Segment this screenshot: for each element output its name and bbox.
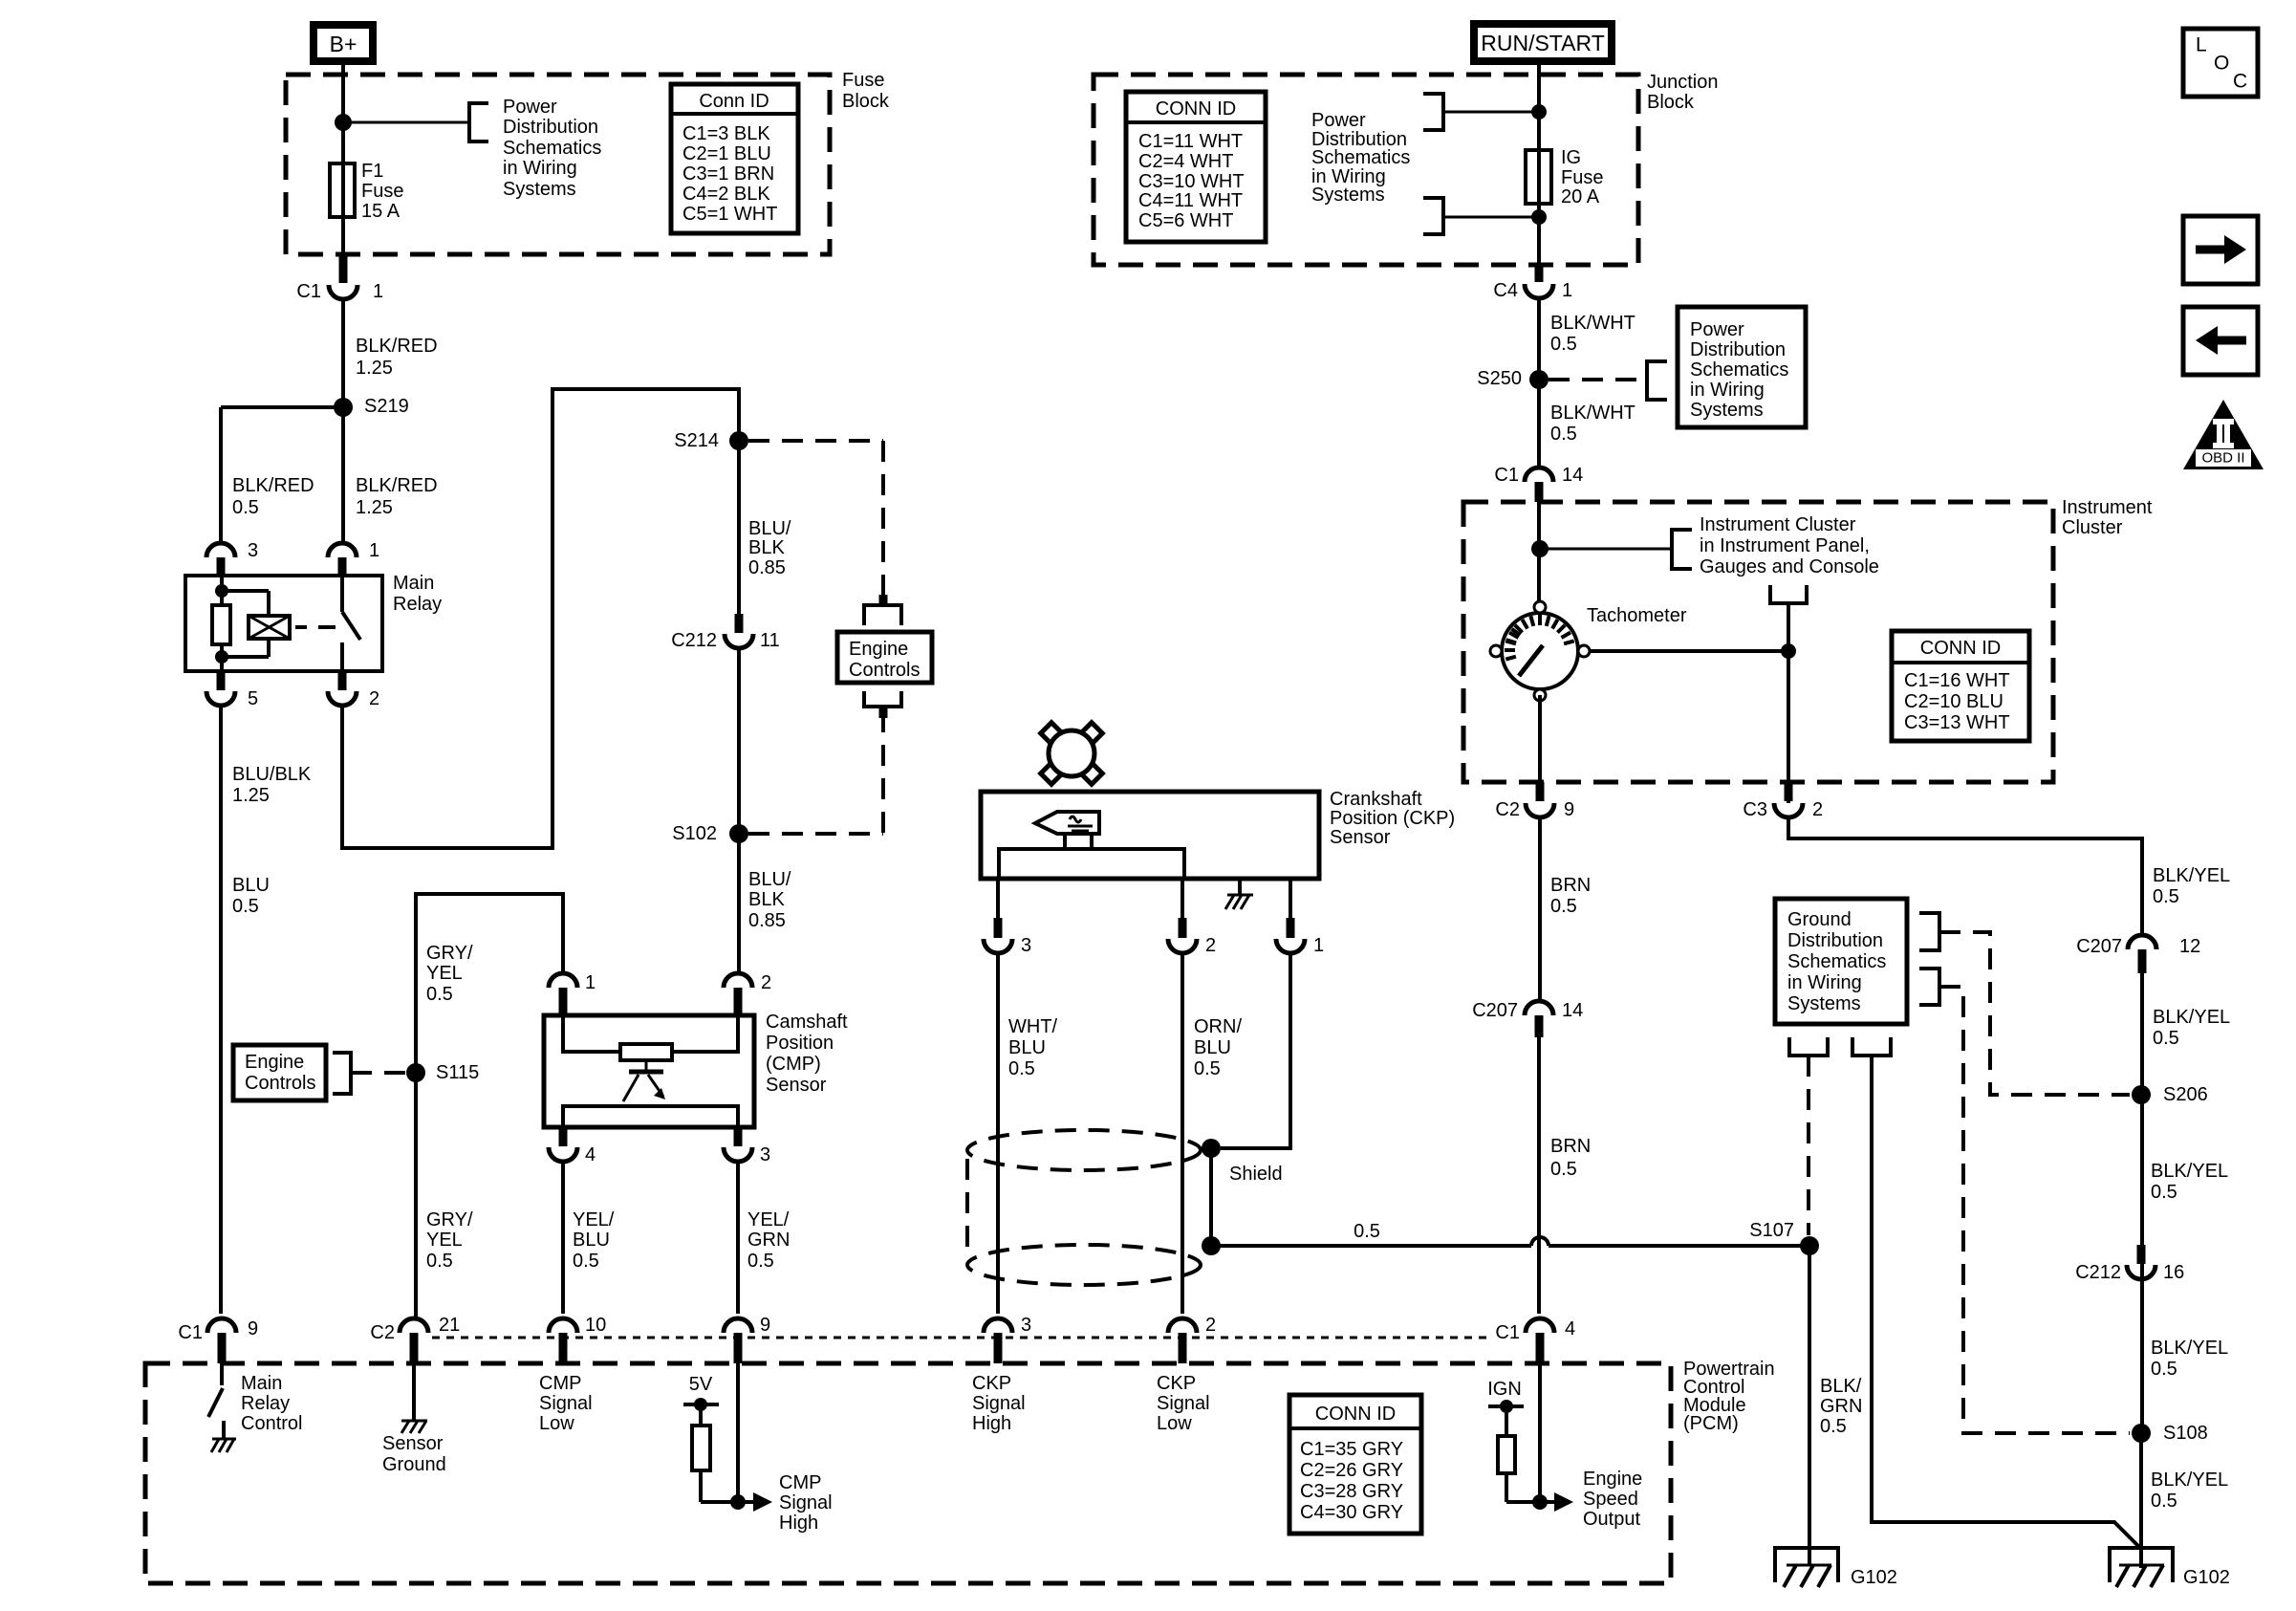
svg-text:Position: Position: [766, 1033, 834, 1054]
svg-text:Sensor: Sensor: [382, 1433, 444, 1454]
svg-text:in Wiring: in Wiring: [1787, 972, 1862, 993]
svg-text:IG: IG: [1561, 147, 1581, 168]
svg-text:C1=35 GRY: C1=35 GRY: [1300, 1439, 1403, 1460]
svg-text:C3=28 GRY: C3=28 GRY: [1300, 1481, 1403, 1502]
svg-text:2: 2: [1205, 1315, 1216, 1336]
svg-text:BLU/: BLU/: [748, 869, 791, 890]
svg-text:16: 16: [2163, 1262, 2184, 1283]
svg-text:C5=1 WHT: C5=1 WHT: [682, 204, 777, 225]
svg-text:2: 2: [369, 688, 379, 709]
svg-text:0.85: 0.85: [748, 910, 786, 931]
svg-text:3: 3: [760, 1144, 770, 1165]
svg-text:2: 2: [1205, 935, 1216, 956]
svg-text:Systems: Systems: [1690, 400, 1764, 421]
svg-text:Tachometer: Tachometer: [1587, 605, 1687, 626]
svg-text:Ground: Ground: [382, 1454, 446, 1475]
svg-text:S107: S107: [1749, 1220, 1794, 1241]
svg-text:12: 12: [2179, 936, 2200, 957]
svg-text:1.25: 1.25: [356, 497, 393, 518]
svg-text:BLK/WHT: BLK/WHT: [1550, 313, 1635, 334]
svg-text:F1: F1: [361, 161, 383, 182]
svg-text:(CMP): (CMP): [766, 1054, 821, 1075]
svg-text:BLK: BLK: [748, 537, 785, 558]
svg-text:Speed: Speed: [1583, 1489, 1638, 1510]
svg-text:0.5: 0.5: [573, 1251, 599, 1272]
svg-text:0.5: 0.5: [1194, 1058, 1221, 1079]
svg-text:3: 3: [248, 540, 258, 561]
svg-text:Signal: Signal: [972, 1393, 1026, 1414]
svg-text:20 A: 20 A: [1561, 186, 1600, 207]
svg-text:GRN: GRN: [1820, 1396, 1862, 1417]
svg-text:CKP: CKP: [972, 1373, 1011, 1394]
svg-text:C212: C212: [671, 630, 717, 651]
svg-text:BRN: BRN: [1550, 875, 1591, 896]
svg-text:0.5: 0.5: [747, 1251, 774, 1272]
svg-text:YEL: YEL: [426, 1230, 463, 1251]
svg-text:0.5: 0.5: [2153, 886, 2179, 907]
svg-text:0.5: 0.5: [232, 497, 259, 518]
svg-text:C4=11 WHT: C4=11 WHT: [1138, 190, 1243, 211]
svg-text:OBD II: OBD II: [2201, 450, 2244, 467]
svg-text:G102: G102: [1851, 1567, 1897, 1588]
svg-text:Distribution: Distribution: [1787, 930, 1883, 951]
svg-text:14: 14: [1562, 465, 1583, 486]
svg-text:14: 14: [1562, 1000, 1583, 1021]
svg-text:Low: Low: [1157, 1413, 1192, 1434]
svg-text:Fuse: Fuse: [361, 181, 403, 202]
svg-text:Low: Low: [539, 1413, 574, 1434]
svg-text:GRY/: GRY/: [426, 1209, 473, 1230]
svg-text:Engine: Engine: [849, 639, 908, 660]
svg-text:5V: 5V: [689, 1374, 713, 1395]
svg-text:9: 9: [1564, 799, 1574, 820]
svg-text:L: L: [2196, 34, 2207, 56]
svg-text:0.5: 0.5: [426, 984, 453, 1005]
svg-text:1: 1: [585, 972, 596, 993]
svg-text:in Instrument Panel,: in Instrument Panel,: [1700, 535, 1870, 556]
svg-text:C2: C2: [370, 1322, 395, 1343]
svg-text:BLK/YEL: BLK/YEL: [2153, 865, 2230, 886]
svg-text:Engine: Engine: [245, 1052, 304, 1073]
svg-text:C3=1 BRN: C3=1 BRN: [682, 163, 774, 185]
svg-text:1.25: 1.25: [232, 785, 270, 806]
svg-text:0.5: 0.5: [2151, 1491, 2177, 1512]
svg-text:Schematics: Schematics: [1690, 359, 1788, 381]
svg-text:Position (CKP): Position (CKP): [1330, 808, 1455, 829]
svg-text:C4: C4: [1493, 280, 1518, 301]
svg-text:CKP: CKP: [1157, 1373, 1196, 1394]
svg-text:C2=4 WHT: C2=4 WHT: [1138, 151, 1233, 172]
svg-text:High: High: [779, 1513, 818, 1534]
svg-text:BLK/YEL: BLK/YEL: [2151, 1469, 2228, 1491]
svg-text:WHT/: WHT/: [1008, 1016, 1058, 1037]
svg-text:GRY/: GRY/: [426, 943, 473, 964]
svg-text:0.85: 0.85: [748, 557, 786, 578]
svg-text:Block: Block: [842, 91, 890, 112]
svg-text:Signal: Signal: [779, 1492, 833, 1513]
svg-text:BLU: BLU: [232, 875, 270, 896]
svg-text:(PCM): (PCM): [1683, 1413, 1739, 1434]
svg-text:Crankshaft: Crankshaft: [1330, 789, 1422, 810]
svg-text:BLK/WHT: BLK/WHT: [1550, 403, 1635, 424]
svg-text:Power: Power: [503, 97, 557, 118]
svg-text:C3: C3: [1743, 799, 1767, 820]
svg-text:0.5: 0.5: [1550, 896, 1577, 917]
svg-text:C2=10 BLU: C2=10 BLU: [1904, 691, 2004, 712]
svg-text:Main: Main: [241, 1373, 282, 1394]
svg-text:C: C: [2233, 71, 2247, 93]
svg-text:15 A: 15 A: [361, 201, 401, 222]
svg-text:BLK/YEL: BLK/YEL: [2153, 1007, 2230, 1028]
svg-text:5: 5: [248, 688, 258, 709]
svg-text:Systems: Systems: [1787, 993, 1861, 1014]
svg-text:Ground: Ground: [1787, 909, 1852, 930]
svg-text:BLU: BLU: [1008, 1037, 1046, 1058]
svg-text:BLK/YEL: BLK/YEL: [2151, 1161, 2228, 1182]
svg-text:C207: C207: [2076, 936, 2122, 957]
svg-text:High: High: [972, 1413, 1011, 1434]
svg-text:BLU/BLK: BLU/BLK: [232, 764, 312, 785]
svg-text:C1: C1: [1495, 1322, 1520, 1343]
svg-text:CONN ID: CONN ID: [1156, 98, 1236, 120]
svg-text:Engine: Engine: [1583, 1469, 1642, 1490]
svg-text:2: 2: [1812, 799, 1823, 820]
svg-text:1: 1: [369, 540, 379, 561]
svg-text:BLK: BLK: [748, 889, 785, 910]
svg-text:Distribution: Distribution: [1690, 339, 1786, 360]
svg-text:Output: Output: [1583, 1509, 1640, 1530]
svg-text:BLK/RED: BLK/RED: [356, 336, 438, 357]
svg-text:C2=26 GRY: C2=26 GRY: [1300, 1460, 1403, 1481]
svg-text:Cluster: Cluster: [2062, 517, 2123, 538]
svg-text:Gauges and Console: Gauges and Console: [1700, 556, 1879, 577]
svg-text:9: 9: [248, 1318, 258, 1339]
svg-text:C1=11 WHT: C1=11 WHT: [1138, 131, 1243, 152]
svg-text:0.5: 0.5: [1008, 1058, 1035, 1079]
svg-text:Systems: Systems: [503, 179, 576, 200]
svg-text:2: 2: [761, 972, 771, 993]
svg-text:1: 1: [373, 281, 383, 302]
svg-text:Signal: Signal: [539, 1393, 593, 1414]
svg-text:Control: Control: [241, 1413, 302, 1434]
svg-text:11: 11: [760, 630, 780, 651]
svg-text:C4=30 GRY: C4=30 GRY: [1300, 1502, 1403, 1523]
svg-text:4: 4: [585, 1144, 596, 1165]
svg-text:Schematics: Schematics: [1787, 951, 1886, 972]
svg-text:Junction: Junction: [1647, 72, 1719, 93]
svg-text:BLK/RED: BLK/RED: [232, 475, 314, 496]
svg-text:BLK/: BLK/: [1820, 1376, 1862, 1397]
svg-text:C1: C1: [1494, 465, 1519, 486]
svg-text:in Wiring: in Wiring: [503, 158, 577, 179]
svg-text:S108: S108: [2163, 1423, 2208, 1444]
svg-text:BLU: BLU: [573, 1230, 610, 1251]
svg-text:4: 4: [1565, 1318, 1575, 1339]
svg-text:C2: C2: [1495, 799, 1520, 820]
svg-text:Schematics: Schematics: [1311, 147, 1410, 168]
svg-text:Sensor: Sensor: [1330, 827, 1391, 848]
svg-text:CONN ID: CONN ID: [1920, 638, 2001, 659]
svg-text:RUN/START: RUN/START: [1481, 31, 1605, 55]
svg-text:9: 9: [760, 1315, 770, 1336]
svg-text:BRN: BRN: [1550, 1136, 1591, 1157]
svg-text:C3=13 WHT: C3=13 WHT: [1904, 712, 2010, 733]
svg-text:Block: Block: [1647, 92, 1695, 113]
svg-text:C2=1 BLU: C2=1 BLU: [682, 143, 771, 164]
svg-text:BLK/YEL: BLK/YEL: [2151, 1338, 2228, 1359]
svg-text:21: 21: [439, 1315, 460, 1336]
svg-text:BLU: BLU: [1194, 1037, 1231, 1058]
svg-text:1: 1: [1313, 935, 1324, 956]
svg-text:0.5: 0.5: [2153, 1028, 2179, 1049]
svg-text:G102: G102: [2183, 1567, 2230, 1588]
svg-text:YEL/: YEL/: [747, 1209, 790, 1230]
svg-text:S102: S102: [672, 823, 717, 844]
svg-text:C1: C1: [178, 1322, 203, 1343]
svg-text:C1=3 BLK: C1=3 BLK: [682, 123, 770, 144]
svg-text:C1: C1: [296, 281, 321, 302]
svg-text:Shield: Shield: [1229, 1164, 1283, 1185]
svg-text:Signal: Signal: [1157, 1393, 1210, 1414]
svg-text:in Wiring: in Wiring: [1690, 380, 1765, 401]
svg-text:0.5: 0.5: [2151, 1182, 2177, 1203]
svg-text:Schematics: Schematics: [503, 138, 601, 159]
svg-text:Fuse: Fuse: [1561, 167, 1603, 188]
svg-text:C3=10 WHT: C3=10 WHT: [1138, 171, 1245, 192]
svg-text:S214: S214: [674, 430, 719, 451]
svg-text:Main: Main: [393, 573, 434, 594]
svg-text:YEL: YEL: [426, 963, 463, 984]
svg-text:C212: C212: [2075, 1262, 2121, 1283]
svg-text:Instrument Cluster: Instrument Cluster: [1700, 514, 1856, 535]
svg-text:C207: C207: [1472, 1000, 1518, 1021]
svg-text:BLK/RED: BLK/RED: [356, 475, 438, 496]
svg-text:Instrument: Instrument: [2062, 497, 2153, 518]
svg-text:C4=2 BLK: C4=2 BLK: [682, 184, 770, 205]
svg-text:GRN: GRN: [747, 1230, 790, 1251]
svg-text:YEL/: YEL/: [573, 1209, 615, 1230]
svg-text:Camshaft: Camshaft: [766, 1012, 848, 1033]
svg-text:Distribution: Distribution: [503, 117, 598, 138]
svg-text:O: O: [2214, 53, 2229, 75]
svg-text:0.5: 0.5: [426, 1251, 453, 1272]
svg-text:B+: B+: [330, 32, 357, 56]
svg-text:0.5: 0.5: [1354, 1221, 1380, 1242]
svg-text:0.5: 0.5: [2151, 1359, 2177, 1380]
svg-text:10: 10: [585, 1315, 606, 1336]
svg-text:Relay: Relay: [241, 1393, 290, 1414]
svg-text:CMP: CMP: [779, 1472, 821, 1493]
svg-text:Power: Power: [1690, 319, 1744, 340]
svg-text:S219: S219: [364, 396, 409, 417]
svg-text:0.5: 0.5: [1550, 1159, 1577, 1180]
svg-text:Sensor: Sensor: [766, 1075, 827, 1096]
svg-text:S250: S250: [1477, 368, 1522, 389]
svg-text:S115: S115: [436, 1062, 479, 1083]
svg-text:C5=6 WHT: C5=6 WHT: [1138, 210, 1233, 231]
svg-text:1.25: 1.25: [356, 358, 393, 379]
svg-text:3: 3: [1021, 1315, 1031, 1336]
svg-text:CMP: CMP: [539, 1373, 581, 1394]
svg-text:Fuse: Fuse: [842, 70, 884, 91]
svg-text:0.5: 0.5: [1550, 424, 1577, 445]
svg-text:BLU/: BLU/: [748, 518, 791, 539]
svg-text:Power: Power: [1311, 110, 1366, 131]
svg-text:ORN/: ORN/: [1194, 1016, 1242, 1037]
svg-text:CONN ID: CONN ID: [1315, 1404, 1396, 1425]
svg-text:Systems: Systems: [1311, 185, 1385, 206]
svg-text:0.5: 0.5: [232, 896, 259, 917]
svg-text:Relay: Relay: [393, 594, 442, 615]
svg-text:Controls: Controls: [245, 1073, 315, 1094]
svg-text:3: 3: [1021, 935, 1031, 956]
svg-text:Conn ID: Conn ID: [699, 91, 769, 112]
svg-text:Controls: Controls: [849, 660, 920, 681]
svg-text:0.5: 0.5: [1550, 334, 1577, 355]
svg-text:C1=16 WHT: C1=16 WHT: [1904, 670, 2010, 691]
svg-text:1: 1: [1562, 280, 1572, 301]
svg-text:IGN: IGN: [1487, 1379, 1522, 1400]
svg-text:S206: S206: [2163, 1084, 2208, 1105]
svg-text:0.5: 0.5: [1820, 1416, 1847, 1437]
